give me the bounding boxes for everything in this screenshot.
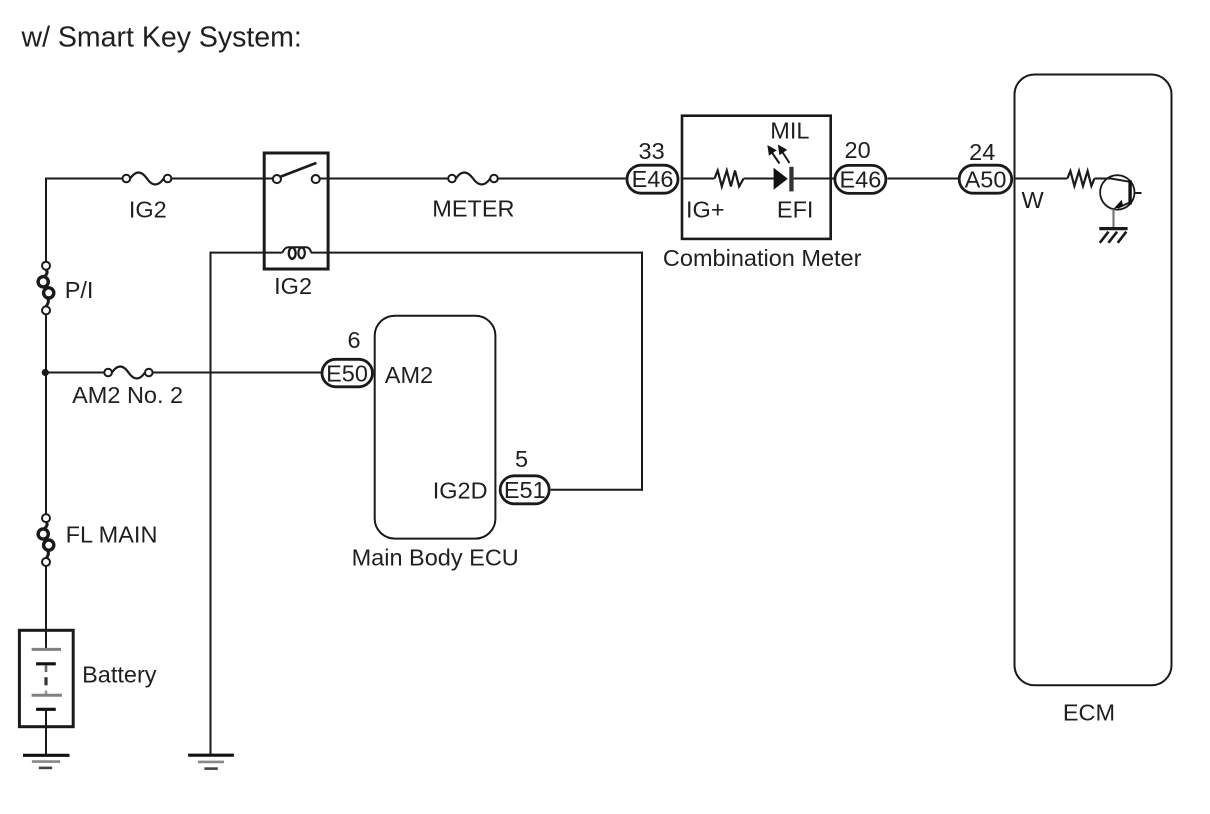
svg-text:E46: E46 — [839, 166, 881, 192]
svg-text:ECM: ECM — [1063, 700, 1115, 726]
battery box — [19, 630, 73, 726]
wire: box edge to resistor — [681, 178, 715, 180]
svg-text:E51: E51 — [504, 477, 546, 503]
relay IG2 box — [264, 153, 328, 269]
wire: battery to ground — [45, 709, 47, 755]
relay switch contacts and arm — [273, 163, 320, 183]
wire: left rail middle — [45, 314, 47, 514]
svg-text:Main Body ECU: Main Body ECU — [352, 544, 519, 570]
fusible link P/I — [38, 262, 54, 315]
resistor (ECM) — [1067, 171, 1094, 186]
wire: resistor to transistor — [1094, 178, 1111, 180]
wire: E46 to A50 — [888, 178, 959, 180]
LED MIL diode — [774, 167, 794, 192]
Combination Meter box — [682, 116, 831, 239]
wire: junction to AM2 fuse — [46, 372, 104, 374]
svg-text:20: 20 — [845, 137, 871, 163]
svg-text:METER: METER — [432, 195, 514, 221]
svg-text:AM2: AM2 — [385, 362, 433, 388]
wire: left rail top — [45, 178, 47, 263]
wire: METER fuse to E46 connector — [498, 178, 626, 180]
svg-text:AM2 No. 2: AM2 No. 2 — [72, 382, 183, 408]
wire: top main wire left segment — [46, 178, 123, 180]
fuse AM2 No. 2 — [104, 367, 152, 379]
Main Body ECU box — [375, 316, 496, 539]
svg-text:Combination Meter: Combination Meter — [663, 245, 862, 271]
svg-text:EFI: EFI — [777, 197, 814, 223]
svg-text:E50: E50 — [326, 360, 368, 386]
ground (battery) — [23, 755, 70, 768]
svg-text:IG2D: IG2D — [433, 477, 488, 503]
wire: relay coil right lead to corner — [311, 252, 643, 254]
ground (ECM internal) — [1099, 229, 1127, 243]
svg-text:w/ Smart Key System:: w/ Smart Key System: — [21, 21, 302, 53]
connector E51 pin 5 — [500, 476, 549, 504]
connector E46 pin 33 — [627, 165, 678, 193]
wire: AM2 fuse to E50 — [153, 372, 321, 374]
wire: FL MAIN to battery — [45, 566, 47, 649]
svg-text:MIL: MIL — [770, 117, 809, 143]
svg-text:A50: A50 — [965, 166, 1007, 192]
wire: vertical from coil lead down to E51 wire — [641, 252, 643, 491]
wire: relay to METER fuse — [320, 178, 448, 180]
LED arrows — [768, 146, 790, 164]
svg-text:P/I: P/I — [65, 277, 94, 303]
ECM box — [1015, 75, 1172, 686]
wire: resistor to LED — [744, 178, 774, 180]
node junction dot — [42, 369, 49, 376]
svg-text:W: W — [1022, 187, 1045, 213]
wire: relay coil left lead — [210, 252, 283, 254]
wire: A50 into ECM to resistor — [1014, 178, 1068, 180]
battery plates — [32, 649, 62, 709]
resistor (combination meter) — [715, 171, 744, 187]
transistor (ECM output) — [1100, 175, 1141, 209]
fusible link FL MAIN — [38, 514, 54, 566]
connector E46 pin 20 — [835, 165, 886, 193]
svg-text:FL MAIN: FL MAIN — [66, 521, 158, 547]
fuse METER — [448, 173, 498, 185]
svg-text:IG2: IG2 — [274, 273, 312, 299]
svg-text:24: 24 — [969, 139, 995, 165]
svg-text:33: 33 — [639, 138, 665, 164]
svg-text:5: 5 — [515, 446, 528, 472]
wire: E51 to corner — [551, 489, 643, 491]
ground (relay coil) — [188, 755, 234, 768]
svg-text:IG+: IG+ — [686, 197, 725, 223]
wire: fuse IG2 to relay — [171, 178, 273, 180]
relay coil — [283, 247, 312, 258]
fuse IG2 — [123, 173, 172, 185]
svg-text:E46: E46 — [632, 166, 674, 192]
wire: LED to box right edge — [794, 178, 834, 180]
connector A50 pin 24 — [959, 165, 1012, 193]
svg-text:6: 6 — [347, 327, 360, 353]
svg-text:Battery: Battery — [82, 662, 157, 688]
wire: coil lead vertical down — [210, 252, 212, 756]
connector E50 pin 6 — [322, 359, 373, 387]
wire: emitter to ground — [1112, 209, 1114, 227]
svg-text:IG2: IG2 — [129, 197, 167, 223]
